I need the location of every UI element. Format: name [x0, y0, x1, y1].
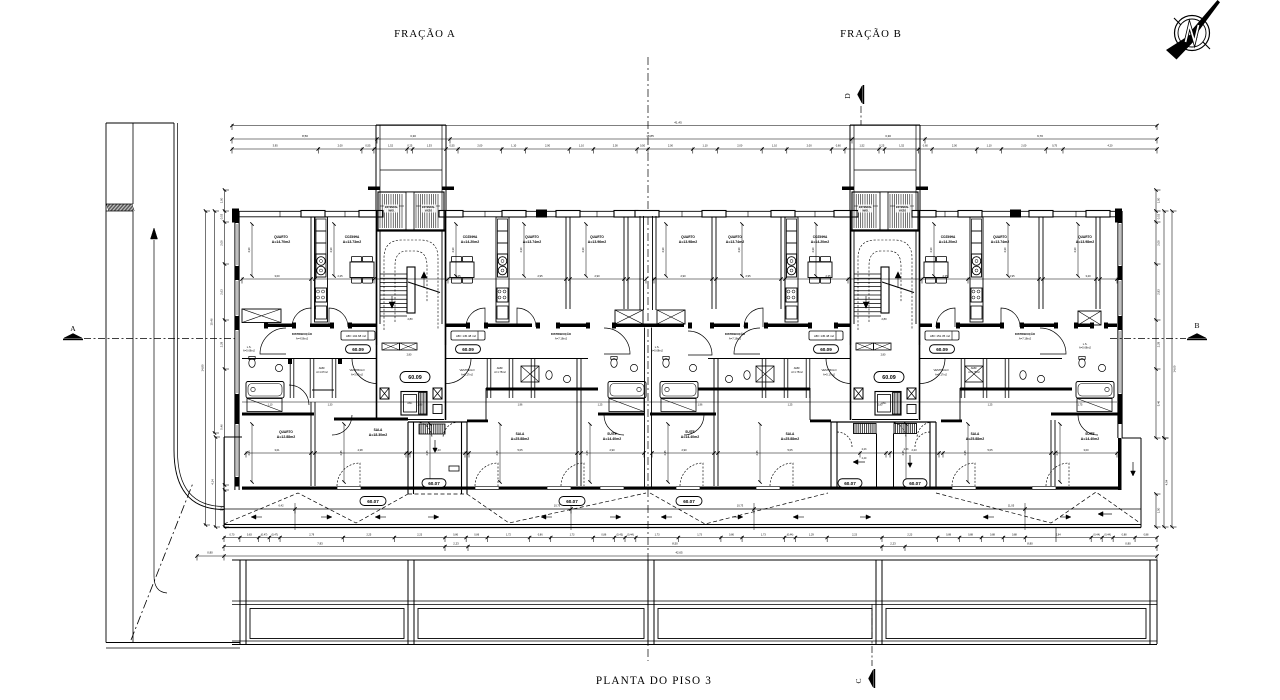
svg-text:5,05: 5,05 [987, 448, 993, 452]
svg-text:0,70: 0,70 [230, 534, 235, 537]
svg-text:4,45: 4,45 [495, 450, 499, 456]
svg-text:2,00: 2,00 [338, 144, 344, 148]
svg-text:4,30: 4,30 [661, 247, 665, 253]
hall band dim line [242, 401, 1117, 403]
svg-text:2,25: 2,25 [366, 534, 371, 537]
svg-text:(0,44): (0,44) [1104, 534, 1111, 537]
svg-text:A=14.70m2: A=14.70m2 [272, 240, 290, 244]
svg-text:QUARTO: QUARTO [728, 235, 742, 239]
svg-text:0,80: 0,80 [207, 551, 213, 555]
svg-text:11,05: 11,05 [1008, 504, 1015, 508]
svg-text:5,46: 5,46 [1156, 400, 1160, 406]
svg-text:1,73: 1,73 [761, 534, 766, 537]
sink [630, 364, 637, 371]
right protrusion arrow [1132, 462, 1134, 474]
svg-text:2,00: 2,00 [807, 144, 813, 148]
svg-text:0,86: 0,86 [453, 534, 458, 537]
svg-text:AMR.: AMR. [794, 366, 801, 370]
low wardrobe with diagonals [242, 309, 281, 323]
svg-text:5,46: 5,46 [219, 424, 223, 430]
core lobby bottom wall [850, 345, 852, 420]
svg-text:1,10: 1,10 [772, 144, 778, 148]
svg-text:0,86: 0,86 [601, 534, 606, 537]
svg-text:A=4.56m2: A=4.56m2 [296, 337, 309, 341]
svg-text:0,53: 0,53 [219, 213, 223, 219]
svg-text:2,00: 2,00 [477, 144, 483, 148]
svg-text:4,30: 4,30 [1003, 247, 1007, 253]
svg-text:2,23: 2,23 [904, 448, 909, 451]
lobby oval B [874, 372, 904, 383]
svg-text:A=5.17m2: A=5.17m2 [935, 373, 947, 377]
svg-text:A=13.73m2: A=13.73m2 [343, 240, 361, 244]
svg-text:COZINHA: COZINHA [941, 235, 956, 239]
svg-text:QUARTO: QUARTO [993, 235, 1007, 239]
bottom dim row3 [197, 555, 1157, 557]
room vertical dims lower [251, 424, 253, 482]
internal dim line lower [246, 452, 644, 454]
svg-text:2,95: 2,95 [537, 274, 543, 278]
drop line right [1055, 528, 1057, 543]
svg-text:2,23: 2,23 [852, 534, 857, 537]
svg-text:FRAÇÃO B: FRAÇÃO B [840, 28, 902, 40]
svg-text:A=25.88m2: A=25.88m2 [966, 437, 984, 441]
svg-text:4,20: 4,20 [1107, 144, 1113, 148]
svg-text:1,29: 1,29 [809, 534, 814, 537]
svg-text:60.09: 60.09 [352, 347, 364, 352]
svg-text:L.S.: L.S. [247, 345, 252, 349]
stove [316, 254, 326, 277]
svg-text:(0,47): (0,47) [261, 534, 268, 537]
svg-text:SALA: SALA [786, 432, 795, 436]
svg-text:SALA: SALA [516, 432, 525, 436]
svg-text:A=5.17m2: A=5.17m2 [823, 373, 835, 377]
stair bottom wardrobe X boxes [856, 343, 874, 350]
stair bottom wardrobe X boxes [382, 343, 400, 350]
svg-text:1,25: 1,25 [598, 404, 603, 407]
sink unit [497, 288, 508, 302]
B porch stair hatches [854, 424, 856, 434]
svg-text:ASC.: ASC. [881, 402, 887, 405]
road right edge with curve [174, 123, 224, 510]
svg-text:2,80: 2,80 [407, 354, 412, 357]
svg-text:2,00: 2,00 [737, 144, 743, 148]
svg-text:14,80: 14,80 [200, 364, 204, 371]
svg-text:0,50: 0,50 [640, 144, 646, 148]
block oval [422, 479, 446, 488]
B porch arrows [855, 461, 865, 463]
svg-text:0,75: 0,75 [1052, 144, 1058, 148]
bottom band partitions [310, 402, 312, 486]
svg-text:60.07: 60.07 [683, 499, 695, 504]
svg-text:AMR.: AMR. [319, 366, 326, 370]
svg-text:QUARTO: QUARTO [590, 235, 604, 239]
svg-text:2,90: 2,90 [680, 274, 686, 278]
bath lower diag box [661, 399, 696, 412]
svg-text:60.09: 60.09 [936, 347, 948, 352]
top wall base lines [232, 210, 376, 212]
svg-text:0,88: 0,88 [990, 534, 995, 537]
kitchen appliance column [785, 217, 798, 322]
svg-text:1,73: 1,73 [697, 534, 702, 537]
mid wall jambs [264, 323, 268, 329]
svg-text:1,25: 1,25 [988, 404, 993, 407]
svg-text:A=1.75m2: A=1.75m2 [791, 371, 803, 374]
svg-text:FRAÇÃO A: FRAÇÃO A [394, 28, 456, 40]
kitchen table [924, 262, 948, 278]
svg-text:1,00: 1,00 [1156, 197, 1160, 203]
svg-text:60.07: 60.07 [367, 499, 379, 504]
terrace strip midline [224, 508, 1141, 510]
svg-text:A=14.20m2: A=14.20m2 [461, 240, 479, 244]
svg-text:4,45: 4,45 [963, 450, 967, 456]
quarto door arcs [332, 415, 352, 435]
svg-text:2,90: 2,90 [681, 448, 687, 452]
svg-text:MAD.: MAD. [388, 210, 394, 213]
vestibule band B right [920, 358, 1062, 360]
svg-text:4,30: 4,30 [737, 247, 741, 253]
svg-text:10,73: 10,73 [737, 504, 744, 508]
svg-text:4,45: 4,45 [339, 450, 343, 456]
mid wall segments [268, 324, 292, 328]
svg-text:0,60: 0,60 [923, 144, 929, 148]
svg-text:2,64: 2,64 [1056, 534, 1061, 537]
svg-text:4,45: 4,45 [755, 450, 759, 456]
toilet [249, 359, 255, 368]
svg-text:SALA: SALA [971, 432, 980, 436]
svg-text:60.09: 60.09 [820, 347, 832, 352]
svg-text:60.07: 60.07 [566, 499, 578, 504]
toilet [1079, 359, 1085, 368]
svg-text:2,25: 2,25 [337, 274, 343, 278]
svg-text:4,30: 4,30 [1073, 247, 1077, 253]
hall arcs downward [260, 328, 286, 354]
svg-text:8,80: 8,80 [1027, 542, 1033, 546]
terrace strip left extension [223, 437, 225, 526]
svg-text:4,38: 4,38 [357, 448, 363, 452]
sink [275, 364, 282, 371]
svg-text:3,30: 3,30 [885, 134, 891, 138]
svg-text:2,63: 2,63 [219, 289, 223, 295]
svg-text:2,23: 2,23 [911, 448, 917, 452]
center line between fractions [647, 57, 649, 661]
svg-text:1,75: 1,75 [1078, 404, 1083, 407]
stair dashed rail [858, 240, 912, 330]
bath lower diag box [247, 399, 282, 412]
svg-text:4,45: 4,45 [425, 450, 429, 456]
svg-text:QUARTO: QUARTO [525, 235, 539, 239]
svg-text:2,00: 2,00 [952, 144, 958, 148]
svg-text:A=25.88m2: A=25.88m2 [781, 437, 799, 441]
terrace strip bottom [224, 524, 1141, 526]
svg-text:A=3.97m2: A=3.97m2 [351, 373, 363, 377]
left wall window lines [236, 224, 238, 265]
svg-text:0,83: 0,83 [247, 534, 252, 537]
svg-text:5,05: 5,05 [787, 448, 793, 452]
svg-text:A=13.96m2: A=13.96m2 [588, 240, 606, 244]
fraction A left apartment [310, 217, 312, 309]
vestibule band A left [242, 358, 376, 360]
diagonal boundary dash-dot [131, 483, 193, 640]
stair treads [380, 273, 407, 275]
party wall B side [652, 216, 654, 310]
svg-text:ASC.: ASC. [407, 402, 413, 405]
svg-text:1,10: 1,10 [268, 404, 273, 407]
stair treads [854, 273, 881, 275]
svg-text:60.07: 60.07 [909, 481, 921, 486]
parking bottom lines [232, 640, 1157, 642]
svg-text:1,10: 1,10 [987, 144, 993, 148]
parking top line [232, 559, 1157, 561]
kitchen table [450, 262, 474, 278]
svg-text:2,00: 2,00 [668, 144, 674, 148]
svg-text:2,80: 2,80 [407, 317, 413, 321]
internal dim line upper [242, 278, 644, 280]
svg-text:1,52: 1,52 [899, 144, 905, 148]
svg-text:2,83: 2,83 [1156, 289, 1160, 295]
svg-text:2,95: 2,95 [745, 274, 751, 278]
elevator counterweight hatch [892, 393, 894, 415]
block stair hatch [419, 424, 421, 434]
left outer wall [234, 211, 236, 490]
bath lower diag box [609, 399, 644, 412]
stove [787, 254, 797, 277]
svg-text:AMR.: AMR. [971, 366, 978, 370]
svg-text:14,60: 14,60 [1172, 365, 1176, 372]
kitchen appliance column [970, 217, 983, 322]
svg-text:L.S.: L.S. [655, 345, 660, 349]
svg-text:0,55: 0,55 [449, 144, 455, 148]
svg-text:0,25: 0,25 [407, 144, 413, 148]
svg-text:C: C [854, 678, 863, 683]
svg-text:1,10: 1,10 [703, 144, 709, 148]
bath lower diag box [1077, 399, 1112, 412]
svg-text:A=18.30m2: A=18.30m2 [369, 433, 387, 437]
entry stair block [407, 422, 409, 494]
svg-text:VAZIO: VAZIO [425, 210, 432, 213]
kitchen table [808, 262, 832, 278]
svg-text:4,30: 4,30 [581, 247, 585, 253]
toilet [663, 359, 669, 368]
svg-text:3,95: 3,95 [273, 144, 279, 148]
svg-text:4,45: 4,45 [247, 450, 251, 456]
kitchen table [350, 262, 374, 278]
svg-text:2,29: 2,29 [219, 341, 223, 347]
low wardrobe with diagonals [657, 310, 685, 324]
svg-text:VESTIBULO: VESTIBULO [933, 368, 948, 372]
svg-text:60.07: 60.07 [844, 481, 856, 486]
elevator ASC [401, 392, 427, 416]
svg-text:A=12.88m2: A=12.88m2 [277, 435, 295, 439]
stair dashed rail [384, 240, 438, 330]
sala top walls [334, 418, 408, 421]
svg-text:3,00: 3,00 [1083, 448, 1089, 452]
svg-text:42,65: 42,65 [676, 551, 683, 555]
road hatch band [107, 204, 110, 211]
fraction B left apartment [711, 217, 713, 309]
svg-text:2,80: 2,80 [881, 354, 886, 357]
svg-text:2,00: 2,00 [1021, 144, 1027, 148]
svg-text:2,95: 2,95 [1009, 274, 1015, 278]
hall door arcs A [292, 308, 311, 327]
bottom wall sills [337, 486, 361, 490]
svg-text:2,40: 2,40 [862, 457, 867, 460]
strip ovals [360, 497, 386, 506]
svg-text:A=13.74m2: A=13.74m2 [523, 240, 541, 244]
svg-text:1,73: 1,73 [655, 534, 660, 537]
svg-text:A=1.67m2: A=1.67m2 [316, 371, 328, 374]
stair walls [376, 211, 378, 345]
low wardrobe with diagonals [615, 310, 643, 324]
svg-text:A: A [70, 324, 76, 333]
svg-text:7,83: 7,83 [317, 542, 323, 546]
svg-text:60.09: 60.09 [408, 375, 422, 381]
svg-text:AB= 104.68 m2: AB= 104.68 m2 [346, 334, 366, 338]
svg-text:A=7.18m2: A=7.18m2 [1019, 337, 1032, 341]
svg-text:(0,47): (0,47) [271, 534, 278, 537]
svg-text:2,00: 2,00 [1156, 240, 1160, 246]
svg-text:DISTRIBUIÇÃO: DISTRIBUIÇÃO [1015, 331, 1036, 336]
svg-text:VESTIBULO: VESTIBULO [459, 368, 474, 372]
svg-text:(0,44): (0,44) [1093, 534, 1100, 537]
svg-text:0,88: 0,88 [1144, 534, 1149, 537]
estendal rooms [368, 187, 380, 191]
svg-text:(0,44): (0,44) [787, 534, 794, 537]
svg-text:B: B [1194, 321, 1199, 330]
terrace drain zigzag [224, 493, 408, 524]
svg-text:4,45: 4,45 [663, 450, 667, 456]
svg-text:0,60: 0,60 [836, 144, 842, 148]
svg-text:1,25: 1,25 [788, 404, 793, 407]
WC shower squares [521, 366, 539, 382]
svg-text:A=5.68m2: A=5.68m2 [1079, 346, 1091, 350]
svg-text:VESTIBULO: VESTIBULO [349, 368, 364, 372]
svg-text:4,30: 4,30 [329, 247, 333, 253]
svg-text:2,23: 2,23 [862, 448, 867, 451]
svg-text:4,54: 4,54 [1164, 479, 1168, 485]
bottom dim chain fine [224, 537, 1157, 539]
svg-text:0,86: 0,86 [474, 534, 479, 537]
svg-text:60.09: 60.09 [462, 347, 474, 352]
vestibule door arcs from lobby [352, 359, 377, 384]
svg-text:SUITE: SUITE [1085, 432, 1094, 436]
svg-text:2,79: 2,79 [309, 534, 314, 537]
svg-text:A=13.74m2: A=13.74m2 [726, 240, 744, 244]
svg-text:4,30: 4,30 [451, 247, 455, 253]
svg-text:A=14.40m2: A=14.40m2 [681, 435, 699, 439]
svg-text:4,30: 4,30 [811, 247, 815, 253]
svg-text:QUARTO: QUARTO [681, 235, 695, 239]
party wall lower [644, 328, 646, 487]
kitchen appliance column [496, 217, 509, 322]
room vertical dims [251, 224, 253, 276]
svg-text:1,73: 1,73 [570, 534, 575, 537]
svg-text:2,23: 2,23 [907, 534, 912, 537]
elevator lobby columns [854, 388, 863, 399]
svg-text:PLANTA DO PISO 3: PLANTA DO PISO 3 [596, 675, 712, 687]
svg-text:SUITE: SUITE [607, 432, 616, 436]
right dim chains [1155, 190, 1157, 438]
svg-text:4,45: 4,45 [585, 450, 589, 456]
estendal rooms [842, 187, 854, 191]
sink unit [786, 288, 797, 302]
svg-text:QUARTO: QUARTO [1078, 235, 1092, 239]
svg-text:60.07: 60.07 [428, 481, 440, 486]
sink unit [971, 288, 982, 302]
svg-text:A=13.74m2: A=13.74m2 [991, 240, 1009, 244]
fraction B right apartment [1038, 217, 1040, 309]
sink [689, 364, 696, 371]
svg-text:1,52: 1,52 [859, 144, 865, 148]
top wall piers [232, 209, 239, 223]
svg-text:4,45: 4,45 [1055, 450, 1059, 456]
svg-text:6,42: 6,42 [278, 504, 284, 508]
svg-text:(0,43): (0,43) [616, 534, 623, 537]
svg-text:4,30: 4,30 [247, 247, 251, 253]
svg-text:D: D [843, 93, 852, 99]
svg-text:1,30: 1,30 [328, 404, 333, 407]
svg-text:10,46: 10,46 [209, 318, 213, 325]
svg-text:0,86: 0,86 [729, 534, 734, 537]
svg-text:1,96: 1,96 [518, 404, 523, 407]
svg-text:AB= 151.35 m2: AB= 151.35 m2 [930, 334, 950, 338]
svg-text:DISTRIBUIÇÃO: DISTRIBUIÇÃO [551, 331, 572, 336]
road left edge [105, 123, 107, 643]
svg-text:2,00: 2,00 [545, 144, 551, 148]
bathroom tub [660, 382, 698, 399]
svg-text:A=7.18m2: A=7.18m2 [555, 337, 568, 341]
svg-text:AB= 145.48 m2: AB= 145.48 m2 [456, 334, 476, 338]
svg-text:5,05: 5,05 [517, 448, 523, 452]
road inner line [132, 123, 134, 204]
svg-text:0,25: 0,25 [879, 144, 885, 148]
stair walls [850, 211, 852, 345]
svg-text:0,88: 0,88 [1012, 534, 1017, 537]
svg-text:AB= 145.48 m2: AB= 145.48 m2 [814, 334, 834, 338]
bottom wall [242, 487, 1118, 490]
road top line [106, 122, 174, 124]
hall door arcs B [744, 308, 763, 327]
road lane arrow [153, 240, 155, 576]
svg-text:41,45: 41,45 [674, 121, 682, 125]
svg-text:QUARTO: QUARTO [274, 235, 288, 239]
party wall A side [639, 216, 641, 310]
svg-text:4,30: 4,30 [929, 247, 933, 253]
bathroom tub [246, 382, 284, 399]
svg-text:A=14.20m2: A=14.20m2 [811, 240, 829, 244]
stove [498, 254, 508, 277]
bathroom tub [1076, 382, 1114, 399]
svg-text:A=1.75m2: A=1.75m2 [494, 371, 506, 374]
svg-text:1,10: 1,10 [511, 144, 517, 148]
svg-text:2,35: 2,35 [825, 274, 831, 278]
top dim line overall [232, 125, 1157, 127]
svg-text:A=14.40m2: A=14.40m2 [1081, 437, 1099, 441]
svg-text:0,55: 0,55 [365, 144, 371, 148]
kitchen appliance column [315, 217, 328, 322]
svg-text:3,30: 3,30 [410, 134, 416, 138]
svg-text:VAZIO: VAZIO [899, 210, 906, 213]
svg-text:2,23: 2,23 [417, 534, 422, 537]
svg-text:0,88: 0,88 [968, 534, 973, 537]
svg-text:DISTRIBUIÇÃO: DISTRIBUIÇÃO [725, 331, 746, 336]
drain arrows [254, 516, 262, 518]
block down arrow [434, 440, 436, 450]
svg-text:A=5.17m2: A=5.17m2 [461, 373, 473, 377]
lobby oval A [400, 372, 430, 383]
svg-text:COZINHA: COZINHA [345, 235, 360, 239]
parking garage boxes [250, 609, 404, 639]
svg-text:A=13.98m2: A=13.98m2 [1076, 240, 1094, 244]
